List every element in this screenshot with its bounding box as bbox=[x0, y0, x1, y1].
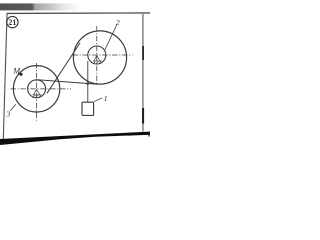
frame top border bbox=[7, 12, 151, 14]
point M dot on left rim bbox=[19, 73, 22, 76]
svg-text:1: 1 bbox=[104, 94, 108, 103]
ink blob at cord junction bbox=[87, 82, 90, 85]
right pulley outer circle (wheel 2) bbox=[73, 31, 126, 84]
left pulley inner circle bbox=[28, 80, 46, 98]
svg-text:3: 3 bbox=[5, 110, 10, 119]
bottom border right-end tick bbox=[148, 133, 149, 137]
svg-text:2: 2 bbox=[116, 18, 120, 27]
svg-text:M: M bbox=[12, 66, 21, 75]
belt/cord line A (near-horizontal) bbox=[37, 80, 98, 84]
right pivot symbol (triangle + hatching) bbox=[93, 56, 102, 64]
frame right border bbox=[142, 14, 143, 132]
scan artifact: grey bar top-left (edge of figure above) bbox=[0, 3, 80, 10]
right pulley horizontal centerline bbox=[73, 54, 133, 56]
left pulley outer circle (wheel 3) bbox=[13, 66, 59, 112]
belt line B (steep tangent) bbox=[47, 43, 80, 93]
svg-text:21: 21 bbox=[8, 18, 16, 27]
right pulley inner circle bbox=[88, 46, 106, 64]
cord to weight bbox=[87, 61, 89, 103]
weight box 1 bbox=[82, 102, 94, 115]
left pulley vertical centerline bbox=[36, 63, 38, 121]
problem number badge circle bbox=[7, 16, 18, 27]
frame left border bbox=[3, 13, 8, 141]
label 3 leader bbox=[10, 104, 16, 111]
left pulley horizontal centerline bbox=[11, 88, 72, 90]
frame bottom border (skewed scan, thick at left) bbox=[0, 132, 150, 145]
label 1 leader bbox=[94, 98, 102, 102]
frame right border thick segment lower bbox=[142, 108, 144, 124]
right pulley vertical centerline bbox=[96, 26, 98, 84]
label 2 leader bbox=[105, 25, 117, 50]
frame right border thick segment upper bbox=[142, 46, 144, 60]
left pivot symbol (triangle + hatching) bbox=[32, 89, 41, 98]
